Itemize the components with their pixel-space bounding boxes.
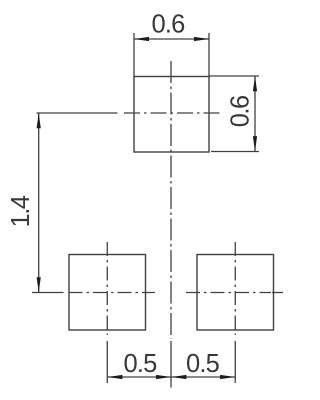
pad P2 (bottom-left square) (69, 255, 146, 331)
centerline: main vertical axis (with extension to 0.5 dimension line) (170, 61, 172, 388)
centerline: top pad horizontal (with extension to 1.4 dimension line) (37, 112, 222, 114)
dimension 1.4 left: dimension line (38, 113, 40, 293)
centerline: left pad vertical (with extension to 0.5 dimension line) (106, 242, 108, 383)
svg-text:0.6: 0.6 (151, 11, 185, 39)
dimension 0.6 right: extension lines (209, 76, 259, 152)
dimension 0.6 top: arrowheads (134, 37, 209, 41)
dimension 1.4 left: arrowheads (37, 113, 41, 292)
pad P1 (top 0.6 x 0.6 square) (134, 77, 209, 153)
pad P3 (bottom-right square) (197, 255, 274, 331)
dimension 0.6 top: extension lines (134, 33, 209, 77)
centerline: right pad vertical (with extension to 0.5 dimension line) (234, 242, 236, 383)
centerline: left pad horizontal (with extension to 1.4 dimension line) (32, 292, 155, 294)
dimension 0.6 right: arrowheads (253, 76, 257, 151)
svg-text:0.6: 0.6 (227, 95, 255, 127)
dimension 0.6 right: dimension line (254, 76, 256, 152)
dimension 0.6 top: dimension line (134, 38, 209, 40)
svg-text:1.4: 1.4 (7, 195, 35, 227)
svg-text:0.5: 0.5 (123, 350, 157, 378)
dimension 0.5 bottom: dimension line (107, 376, 235, 378)
dimension 0.5 bottom: arrowheads (107, 375, 235, 379)
svg-text:0.5: 0.5 (186, 350, 220, 378)
centerline: right pad horizontal (186, 292, 283, 294)
